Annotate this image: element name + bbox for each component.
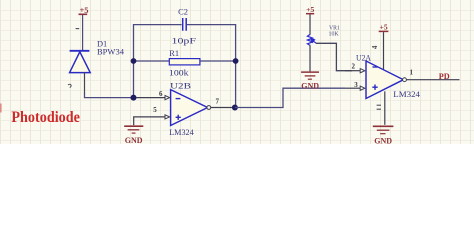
output bubble U2A pin 1: [403, 78, 407, 82]
svg-text:LM324: LM324: [393, 90, 421, 99]
wire R1 left: [134, 60, 170, 62]
pin 7 of U2B: [211, 107, 235, 109]
wire feedback right vertical: [235, 25, 237, 108]
svg-text:+5: +5: [380, 23, 388, 32]
svg-text:10K: 10K: [329, 31, 340, 38]
photodiode D1: [70, 51, 91, 73]
svg-text:100k: 100k: [169, 68, 189, 77]
svg-text:BPW34: BPW34: [97, 48, 125, 57]
wire VR1 bottom to ground: [309, 45, 311, 71]
sheet background: [0, 0, 474, 144]
svg-text:LM324: LM324: [169, 128, 194, 137]
potentiometer VR1: [307, 34, 316, 45]
pin number 1 of D1: [76, 28, 80, 30]
svg-text:C2: C2: [178, 7, 188, 16]
pin 6 of U2B: [136, 97, 165, 99]
svg-text:U2A: U2A: [356, 54, 371, 63]
wire feedback top (to C2 left plate): [133, 24, 182, 26]
output bubble U2B pin 7: [207, 106, 211, 110]
wire D1 anode to node A: [85, 93, 134, 98]
svg-text:PD: PD: [439, 72, 450, 81]
pin number 11: [377, 105, 381, 109]
junction node A (inverting input): [131, 95, 137, 101]
pin 6 arrowhead: [165, 96, 170, 100]
svg-text:U2B: U2B: [170, 81, 192, 90]
wire U2B output to U2A +input: [235, 88, 345, 107]
svg-text:10pF: 10pF: [172, 36, 197, 45]
wire +5 to D1 cathode: [82, 15, 84, 50]
svg-text:6: 6: [159, 90, 163, 98]
wire +5 to VR1: [309, 14, 311, 34]
pin 2 of D1 (anode lead): [84, 73, 86, 94]
capacitor C2: [183, 18, 187, 31]
junction node right R1: [233, 58, 239, 64]
svg-text:Photodiode: Photodiode: [11, 109, 80, 126]
ground (U2B pin5): [124, 126, 143, 133]
resistor R1: [169, 59, 200, 65]
svg-text:GND: GND: [374, 137, 392, 144]
power +5 (U2A pin 4): [379, 23, 389, 32]
pin 3 of U2A: [345, 87, 360, 89]
svg-text:R1: R1: [169, 49, 179, 58]
ground (VR1): [301, 72, 319, 79]
svg-text:GND: GND: [125, 136, 143, 144]
op-amp U2B: [171, 90, 208, 126]
pin 1 of U2A / output wire: [406, 79, 459, 81]
power +5 (right): [306, 5, 314, 14]
svg-text:3: 3: [354, 81, 358, 89]
pin 4 of U2A (V+): [383, 32, 385, 69]
svg-text:7: 7: [216, 98, 220, 106]
edge mark (cut-off red): [0, 104, 2, 113]
wire GND to pin 5: [134, 117, 165, 125]
pin number 2 of D1: [68, 84, 71, 87]
junction node left R1: [131, 58, 137, 64]
pin 2 arrowhead: [360, 69, 365, 73]
pin 3 arrowhead: [360, 86, 365, 90]
svg-text:1: 1: [410, 69, 414, 77]
svg-text:GND: GND: [301, 81, 319, 90]
pin 11 of U2A: [384, 91, 386, 125]
wire VR1 wiper to U2A pin 2: [316, 43, 352, 70]
ground (U2A pin 11): [373, 126, 394, 133]
junction node output U2B: [232, 105, 238, 111]
pin 2 of U2A: [345, 70, 360, 72]
svg-text:4: 4: [371, 45, 379, 49]
svg-text:5: 5: [153, 106, 157, 114]
svg-text:+5: +5: [306, 5, 314, 14]
svg-text:2: 2: [352, 62, 356, 70]
wire feedback left vertical: [133, 25, 135, 98]
pin 5 arrowhead: [165, 115, 170, 119]
power +5 (left): [79, 5, 89, 15]
wire R1 right: [200, 60, 236, 62]
op-amp U2A: [366, 61, 403, 99]
wire C2 right plate to right vertical: [187, 24, 236, 26]
